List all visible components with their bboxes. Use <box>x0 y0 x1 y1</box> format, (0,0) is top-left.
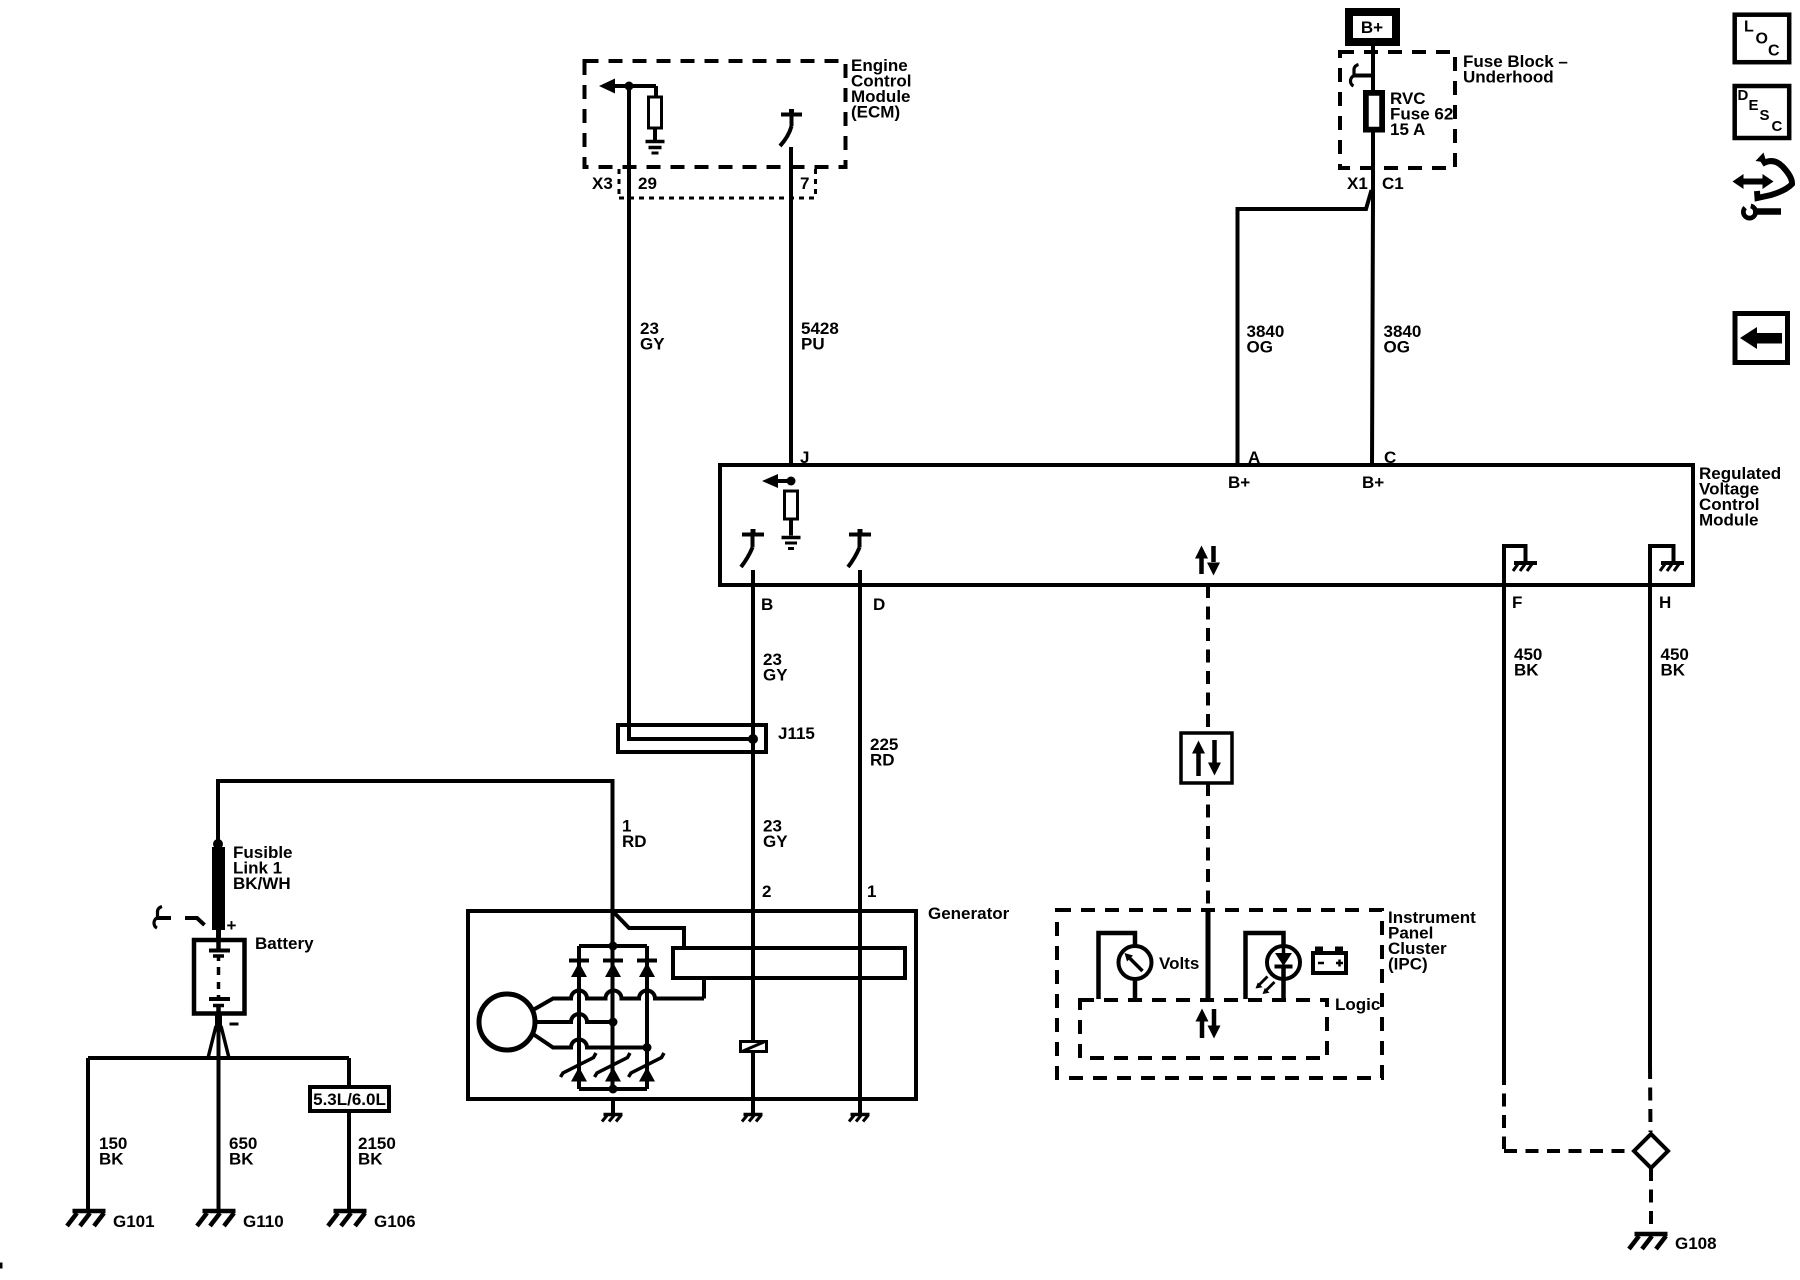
chassis ground RVCM pin F internal <box>1504 546 1526 585</box>
module generator box <box>468 911 916 1099</box>
svg-text:BK: BK <box>99 1150 124 1169</box>
splice diamond G108 <box>1634 1134 1668 1168</box>
svg-text:RD: RD <box>622 832 647 851</box>
indicator wire loop <box>1246 933 1284 999</box>
splice J115 box <box>618 725 766 752</box>
svg-text:O: O <box>1756 31 1768 48</box>
battery icon IPC <box>1313 953 1346 973</box>
connector X3 dotted box <box>618 169 621 197</box>
svg-text:G106: G106 <box>374 1212 416 1231</box>
svg-text:G101: G101 <box>113 1212 155 1231</box>
wire 150 BK <box>86 1058 90 1213</box>
svg-text:15 A: 15 A <box>1390 120 1425 139</box>
crimp terminal symbol <box>1354 74 1374 78</box>
ground RVCM internal <box>782 536 801 540</box>
svg-text:+: + <box>227 916 237 935</box>
svg-text:Underhood: Underhood <box>1463 68 1554 87</box>
wire 5428 PU : ECM pin 7 to RVCM pin J <box>789 147 793 465</box>
svg-text:Battery: Battery <box>255 934 314 953</box>
wire 3840 OG : branch to RVCM pin A <box>1238 190 1372 465</box>
wire 225 RD : RVCM pin D to generator pin 1 <box>858 570 862 1101</box>
svg-text:(IPC): (IPC) <box>1388 955 1428 974</box>
pointer line to fusible link <box>185 918 205 925</box>
wire ground fan <box>217 1026 221 1213</box>
svg-text:B+: B+ <box>1228 473 1250 492</box>
switch RVCM pin B <box>742 533 764 537</box>
svg-text:GY: GY <box>763 666 788 685</box>
LED light arrows <box>1259 977 1268 986</box>
wire regulator to stator <box>702 980 706 999</box>
ground G101 <box>73 1209 106 1214</box>
logic dashed box <box>1080 1000 1327 1058</box>
svg-text:D: D <box>1738 87 1749 104</box>
wire link to battery <box>216 930 221 940</box>
svg-text:OG: OG <box>1384 338 1410 357</box>
switch RVCM pin D <box>849 533 871 537</box>
diode column 2 <box>603 959 623 963</box>
up-down arrows RVCM bottom <box>1199 556 1204 574</box>
svg-text:B: B <box>761 595 773 614</box>
wire B+ to fuse <box>1371 46 1375 92</box>
svg-text:Generator: Generator <box>928 904 1010 923</box>
chassis ground generator 1 <box>611 1101 615 1113</box>
svg-text:Volts: Volts <box>1159 954 1199 973</box>
svg-text:J: J <box>800 448 809 467</box>
svg-text:B+: B+ <box>1361 18 1383 37</box>
svg-text:J115: J115 <box>778 724 815 743</box>
wire resistor to ground <box>789 519 793 536</box>
regulator rectangle <box>673 948 905 978</box>
battery plates <box>216 940 221 949</box>
icon diagnostic double arrow <box>1742 179 1764 185</box>
svg-text:BK: BK <box>1661 661 1686 680</box>
wire dashed control RVCM to IPC <box>1206 585 1210 733</box>
stator phase 1 winding <box>533 991 704 1011</box>
wire to resistor <box>654 86 658 97</box>
node dot pin 29 <box>625 82 634 91</box>
svg-text:A: A <box>1248 448 1260 467</box>
svg-text:C: C <box>1772 118 1783 135</box>
svg-text:GY: GY <box>763 832 788 851</box>
wire arrow to ECM pin 29 node <box>612 84 656 88</box>
wire diamond to G108 ground <box>1649 1168 1653 1232</box>
wire gauge to logic <box>1133 979 1138 999</box>
svg-text:C1: C1 <box>1382 174 1404 193</box>
wire battery to generator <box>218 781 613 909</box>
stator phase 2 winding <box>535 1014 613 1022</box>
battery B1 box <box>194 940 245 1014</box>
svg-text:7: 7 <box>800 174 809 193</box>
svg-text:S: S <box>1760 107 1770 124</box>
node dot J115 <box>748 734 758 744</box>
ground G106 <box>334 1209 367 1214</box>
serial data arrows box <box>1181 733 1232 783</box>
node dot fusible link top <box>213 839 223 849</box>
svg-text:1: 1 <box>867 882 876 901</box>
icon DESC box <box>1735 86 1790 138</box>
volts gauge wire loop <box>1099 933 1136 999</box>
resistor RVCM internal <box>785 491 798 519</box>
engine size box 5.3L/6.0L <box>310 1087 389 1111</box>
svg-text:D: D <box>873 595 885 614</box>
svg-text:F: F <box>1512 593 1522 612</box>
chassis ground generator 2 <box>751 1101 755 1113</box>
chassis ground RVCM pin H internal <box>1650 546 1674 585</box>
svg-text:2: 2 <box>762 882 771 901</box>
svg-text:B+: B+ <box>1362 473 1384 492</box>
svg-text:RD: RD <box>870 751 895 770</box>
resistor ECM internal <box>649 97 662 128</box>
icon diagnostic vehicle outline <box>1756 153 1767 163</box>
page artifact mark <box>0 1263 3 1269</box>
minus sign <box>230 1023 239 1026</box>
svg-text:Module: Module <box>1699 511 1759 530</box>
volts gauge <box>1119 946 1152 979</box>
ground G108 <box>1635 1232 1668 1237</box>
svg-text:PU: PU <box>801 335 825 354</box>
wire battery negative <box>215 1013 222 1026</box>
svg-text:BK: BK <box>1514 661 1539 680</box>
svg-text:BK/WH: BK/WH <box>233 874 291 893</box>
svg-text:Logic: Logic <box>1335 995 1380 1014</box>
svg-text:(ECM): (ECM) <box>851 103 900 122</box>
svg-text:C: C <box>1768 43 1780 60</box>
fuse block underhood dashed box <box>1340 52 1455 168</box>
icon diagnostic wrench <box>1741 204 1758 221</box>
wire 450 BK : RVCM pin H to G108 <box>1648 585 1652 1066</box>
svg-text:E: E <box>1749 97 1759 114</box>
wire 3840 OG : fuse to RVCM pin C <box>1372 130 1373 465</box>
svg-text:H: H <box>1659 593 1671 612</box>
wire to regulator <box>613 911 685 946</box>
svg-text:L: L <box>1744 19 1754 36</box>
LED charge indicator <box>1267 946 1300 979</box>
svg-text:29: 29 <box>638 174 657 193</box>
svg-text:X3: X3 <box>592 174 613 193</box>
stator phase 3 winding <box>533 1034 647 1048</box>
svg-text:X1: X1 <box>1347 174 1368 193</box>
svg-text:G108: G108 <box>1675 1234 1717 1253</box>
wire 1 RD internal drop <box>611 909 615 1089</box>
svg-text:BK: BK <box>229 1150 254 1169</box>
B+ power symbol box <box>1349 12 1396 42</box>
module IPC dashed box <box>1057 910 1382 1078</box>
up-down arrows logic <box>1200 1020 1205 1038</box>
wire dashed control box to IPC <box>1206 783 1210 908</box>
wire LED to logic <box>1281 967 1286 1000</box>
ground ECM internal <box>646 140 665 144</box>
icon LOC box <box>1735 15 1790 63</box>
chassis ground generator 3 <box>858 1101 862 1113</box>
icon back arrow box <box>1735 314 1788 363</box>
svg-text:C: C <box>1384 448 1396 467</box>
node dot pin J <box>787 477 796 486</box>
wire arrow at pin J <box>769 479 791 483</box>
diode rail bottom <box>579 1087 647 1091</box>
diode column 1 <box>577 946 581 1089</box>
rotor circle <box>479 994 535 1050</box>
module ECM dashed box <box>585 61 846 167</box>
switch ECM driver pin 7 <box>781 113 802 117</box>
diode rail top <box>579 944 647 948</box>
wire 2150 BK <box>347 1058 351 1085</box>
wire 23 GY : RVCM pin B to generator pin 2 <box>751 570 755 1040</box>
svg-text:G110: G110 <box>243 1212 284 1231</box>
svg-text:OG: OG <box>1247 338 1273 357</box>
fusible link 1 BK/WH <box>212 847 225 930</box>
diode column 3 <box>645 946 649 1089</box>
svg-text:5.3L/6.0L: 5.3L/6.0L <box>313 1090 386 1109</box>
ground G110 <box>203 1209 236 1214</box>
thermistor box on pin 2 wire <box>741 1042 767 1052</box>
svg-text:BK: BK <box>358 1150 383 1169</box>
fuse RVC Fuse 62 15 A <box>1365 92 1383 131</box>
svg-text:GY: GY <box>640 335 665 354</box>
crimp terminal symbol battery <box>157 916 171 920</box>
wire 450 BK : RVCM pin F to G108 <box>1502 585 1506 1072</box>
wire 23 GY : ECM pin 29 to J115 <box>629 86 753 739</box>
module RVCM box <box>720 465 1693 585</box>
wire resistor to ground <box>653 128 657 140</box>
